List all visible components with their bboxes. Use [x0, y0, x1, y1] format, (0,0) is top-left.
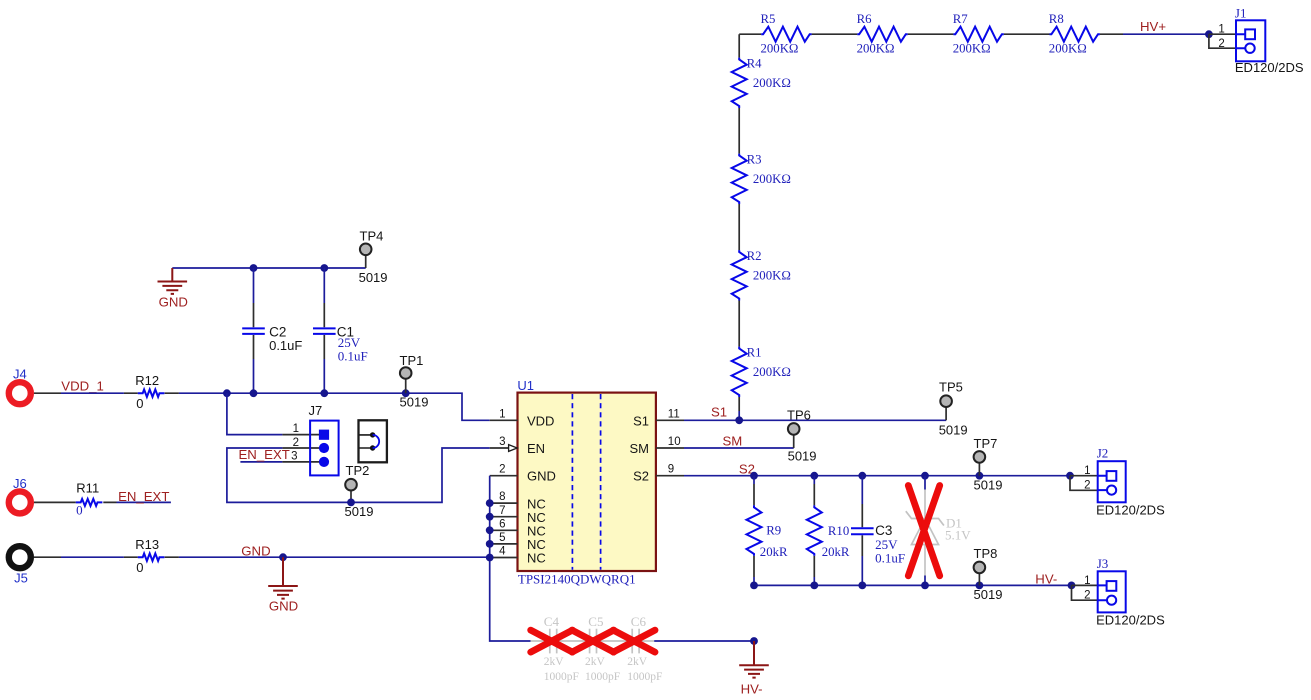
- svg-text:200KΩ: 200KΩ: [761, 42, 799, 56]
- svg-text:2kV: 2kV: [627, 656, 648, 668]
- svg-text:J1: J1: [1235, 6, 1247, 21]
- svg-text:2: 2: [1084, 480, 1090, 492]
- U1 NC pins 8 7 6 5 4: [490, 503, 518, 557]
- svg-text:R3: R3: [747, 153, 762, 167]
- connector J6: [9, 476, 31, 513]
- svg-text:R6: R6: [857, 12, 873, 26]
- capacitor C4 (not stuffed): [544, 614, 579, 683]
- U1 pin 11 S1: [656, 419, 684, 421]
- svg-text:C6: C6: [631, 614, 647, 629]
- junction dot at J1: [1205, 30, 1213, 38]
- svg-text:5019: 5019: [345, 504, 374, 519]
- svg-text:TPSI2140QDWQRQ1: TPSI2140QDWQRQ1: [518, 572, 636, 587]
- svg-text:9: 9: [668, 464, 674, 476]
- connector J3: [1084, 556, 1165, 628]
- junction dot HV- corner: [750, 637, 758, 645]
- svg-text:C3: C3: [875, 523, 892, 538]
- svg-text:U1: U1: [517, 378, 534, 393]
- svg-text:200KΩ: 200KΩ: [753, 76, 791, 90]
- svg-text:C4: C4: [544, 614, 560, 629]
- testpoint TP6: [787, 407, 817, 463]
- svg-text:R5: R5: [761, 12, 776, 26]
- svg-text:R7: R7: [953, 12, 969, 26]
- ground GND lower-left: [268, 557, 298, 614]
- svg-text:0: 0: [76, 503, 83, 518]
- op-amp U1 body: [517, 378, 656, 587]
- resistor R4: [732, 57, 791, 109]
- svg-text:R1: R1: [747, 346, 762, 360]
- no-stuff cross D1: [908, 486, 939, 576]
- connector J5: [9, 546, 31, 586]
- wire J3 pin2: [1072, 585, 1098, 600]
- svg-text:J4: J4: [13, 367, 27, 382]
- wire J2 pin1: [1070, 475, 1098, 477]
- svg-text:2kV: 2kV: [585, 656, 606, 668]
- testpoint TP5: [939, 380, 968, 438]
- svg-text:TP6: TP6: [787, 407, 811, 422]
- svg-text:1000pF: 1000pF: [585, 671, 620, 683]
- svg-text:R10: R10: [828, 524, 849, 538]
- wire J7 pin2 to EN loop: [282, 447, 322, 449]
- U1 pin 3 EN: [490, 447, 509, 449]
- junction dot GND rail: [279, 553, 287, 561]
- wire J1 pin1: [1209, 33, 1236, 35]
- svg-text:EN: EN: [527, 441, 545, 456]
- svg-text:TP7: TP7: [974, 436, 998, 451]
- connector J7: [291, 403, 339, 475]
- wire NC bus vertical: [490, 476, 531, 641]
- ground HV- symbol: [739, 641, 769, 697]
- svg-text:VDD: VDD: [527, 414, 554, 429]
- junction dot S1/divider: [735, 416, 743, 424]
- U1 pin 10 SM: [656, 447, 684, 449]
- U1 pin 2 GND: [490, 475, 518, 477]
- wire GND rail: [179, 556, 490, 558]
- svg-text:200KΩ: 200KΩ: [1049, 42, 1087, 56]
- svg-text:2: 2: [1084, 589, 1090, 601]
- svg-text:7: 7: [499, 505, 505, 517]
- svg-text:8: 8: [499, 491, 505, 503]
- wire J7 pin1: [227, 393, 283, 434]
- svg-text:2: 2: [293, 437, 299, 449]
- svg-text:C5: C5: [588, 614, 603, 629]
- testpoint TP4: [359, 229, 388, 286]
- svg-text:GND: GND: [159, 294, 188, 309]
- svg-text:ED120/2DS: ED120/2DS: [1096, 613, 1165, 628]
- junction dot TP2: [347, 499, 355, 507]
- svg-text:J3: J3: [1097, 556, 1109, 571]
- wire top cap rail: [172, 267, 365, 269]
- svg-text:1: 1: [499, 408, 505, 420]
- connector J4: [9, 367, 31, 405]
- testpoint TP2: [345, 463, 374, 519]
- resistor R5: [761, 12, 812, 56]
- svg-text:2kV: 2kV: [544, 656, 565, 668]
- svg-text:HV+: HV+: [1140, 19, 1166, 34]
- resistor R3: [732, 153, 791, 205]
- wire bottom cluster rail: [754, 584, 1072, 586]
- wire HV+ net to J1 junction: [1123, 33, 1209, 35]
- svg-text:5019: 5019: [788, 449, 817, 464]
- svg-text:0: 0: [136, 560, 143, 575]
- wire SM row: [684, 447, 794, 449]
- svg-text:4: 4: [499, 546, 506, 558]
- svg-text:5019: 5019: [359, 270, 388, 285]
- svg-text:TP1: TP1: [400, 353, 424, 368]
- svg-text:5019: 5019: [400, 394, 429, 409]
- testpoint TP1: [400, 353, 429, 409]
- svg-text:1: 1: [293, 423, 299, 435]
- svg-text:GND: GND: [269, 599, 298, 614]
- resistor R11: [76, 480, 103, 517]
- svg-text:HV-: HV-: [741, 682, 763, 697]
- svg-text:11: 11: [668, 408, 680, 420]
- svg-text:TP8: TP8: [974, 546, 998, 561]
- connector J2: [1084, 446, 1165, 518]
- svg-text:J7: J7: [309, 403, 323, 418]
- svg-text:J6: J6: [13, 476, 27, 491]
- svg-text:EN_EXT: EN_EXT: [118, 489, 169, 504]
- wire J1 pin2: [1209, 34, 1236, 48]
- capacitor C6 (not stuffed): [627, 614, 662, 683]
- svg-text:5019: 5019: [974, 587, 1003, 602]
- resistor R7: [953, 12, 1004, 56]
- resistor R1: [732, 346, 791, 397]
- svg-text:R9: R9: [766, 524, 781, 538]
- no-stuff cross C5: [572, 630, 614, 652]
- svg-text:SM: SM: [723, 433, 743, 448]
- svg-text:S2: S2: [633, 469, 649, 484]
- resistor R13: [135, 537, 164, 575]
- svg-text:R11: R11: [76, 480, 99, 495]
- svg-text:TP5: TP5: [939, 380, 963, 395]
- capacitor C2: [242, 268, 302, 393]
- wire J2 pin2: [1070, 476, 1098, 491]
- resistor R12: [135, 373, 164, 411]
- wire bottom gray cap chain: [531, 640, 655, 642]
- svg-text:20kR: 20kR: [760, 545, 788, 559]
- svg-text:20kR: 20kR: [822, 545, 850, 559]
- resistor R9: [747, 476, 788, 586]
- U1 pin 9 S2: [656, 475, 684, 477]
- svg-text:R2: R2: [747, 249, 762, 263]
- svg-text:R4: R4: [747, 57, 763, 71]
- resistor R8: [1049, 12, 1100, 56]
- svg-text:S1: S1: [633, 414, 649, 429]
- svg-text:3: 3: [499, 436, 505, 448]
- svg-text:0.1uF: 0.1uF: [269, 338, 302, 353]
- svg-text:J5: J5: [14, 571, 28, 586]
- svg-text:ED120/2DS: ED120/2DS: [1096, 503, 1165, 518]
- svg-text:5019: 5019: [974, 478, 1003, 493]
- resistor R10: [807, 476, 850, 586]
- wire J3 pin1: [1072, 584, 1098, 586]
- ground GND top-left: [158, 268, 188, 309]
- testpoint TP8: [974, 546, 1003, 602]
- connector J1: [1218, 6, 1303, 76]
- svg-text:J2: J2: [1097, 446, 1109, 461]
- capacitor C1: [313, 268, 368, 393]
- wire J5 to R13: [34, 556, 179, 558]
- capacitor C3: [851, 476, 905, 586]
- junction dots VDD rail: [223, 389, 231, 397]
- no-stuff cross C4: [531, 630, 573, 652]
- wire J4 to R12: [34, 392, 179, 394]
- capacitor C5 (not stuffed): [585, 614, 620, 683]
- svg-text:5: 5: [499, 532, 505, 544]
- svg-text:TP2: TP2: [346, 463, 370, 478]
- U1 pin 1 VDD: [490, 419, 518, 421]
- svg-text:R13: R13: [135, 537, 159, 552]
- resistor R6: [857, 12, 908, 56]
- svg-text:200KΩ: 200KΩ: [753, 172, 791, 186]
- wire S1 row: [684, 419, 946, 421]
- wire J6 to R11: [34, 501, 117, 503]
- svg-text:R12: R12: [135, 373, 159, 388]
- svg-text:R8: R8: [1049, 12, 1064, 26]
- svg-text:1: 1: [1218, 23, 1224, 35]
- svg-text:ED120/2DS: ED120/2DS: [1235, 60, 1304, 75]
- wire top chain black segment: [739, 33, 1123, 35]
- svg-text:HV-: HV-: [1035, 572, 1057, 587]
- svg-text:S1: S1: [711, 405, 727, 420]
- wire S2 row: [684, 475, 1070, 477]
- svg-text:200KΩ: 200KΩ: [953, 42, 991, 56]
- svg-text:200KΩ: 200KΩ: [857, 42, 895, 56]
- svg-text:0: 0: [136, 396, 143, 411]
- svg-text:1000pF: 1000pF: [627, 671, 662, 683]
- wire VDD rail: [179, 393, 490, 420]
- wire EN_EXT stub: [117, 501, 171, 503]
- testpoint TP7: [974, 436, 1003, 493]
- junction dots S2 row: [750, 472, 758, 480]
- svg-text:0.1uF: 0.1uF: [875, 551, 905, 566]
- resistor R2: [732, 249, 791, 300]
- junction dots bottom rail: [750, 582, 758, 590]
- svg-text:1000pF: 1000pF: [544, 671, 579, 683]
- svg-text:5.1V: 5.1V: [945, 528, 971, 543]
- svg-text:VDD_1: VDD_1: [61, 379, 104, 394]
- svg-text:SM: SM: [630, 441, 650, 456]
- svg-text:0.1uF: 0.1uF: [338, 349, 368, 364]
- no-stuff cross C6: [613, 630, 655, 652]
- svg-text:1: 1: [1084, 575, 1090, 587]
- svg-text:EN_EXT: EN_EXT: [239, 447, 290, 462]
- svg-text:6: 6: [499, 518, 505, 530]
- svg-text:2: 2: [1218, 38, 1224, 50]
- svg-text:GND: GND: [527, 469, 556, 484]
- svg-text:2: 2: [499, 464, 505, 476]
- svg-text:10: 10: [668, 436, 681, 448]
- jumper shunt graphic: [359, 420, 387, 462]
- svg-text:1: 1: [1084, 465, 1090, 477]
- junction dots top rail: [250, 264, 258, 272]
- junction dots NC bus: [486, 499, 494, 507]
- svg-text:TP4: TP4: [360, 229, 384, 244]
- wire vertical divider chain: [738, 34, 740, 411]
- svg-text:NC: NC: [527, 551, 546, 566]
- svg-text:200KΩ: 200KΩ: [753, 269, 791, 283]
- svg-text:5019: 5019: [939, 423, 968, 438]
- svg-text:3: 3: [291, 451, 297, 463]
- svg-text:200KΩ: 200KΩ: [753, 365, 791, 379]
- wire J7 pin3 stub: [240, 461, 282, 463]
- diode D1 (not stuffed): [906, 476, 971, 586]
- svg-text:GND: GND: [241, 544, 270, 559]
